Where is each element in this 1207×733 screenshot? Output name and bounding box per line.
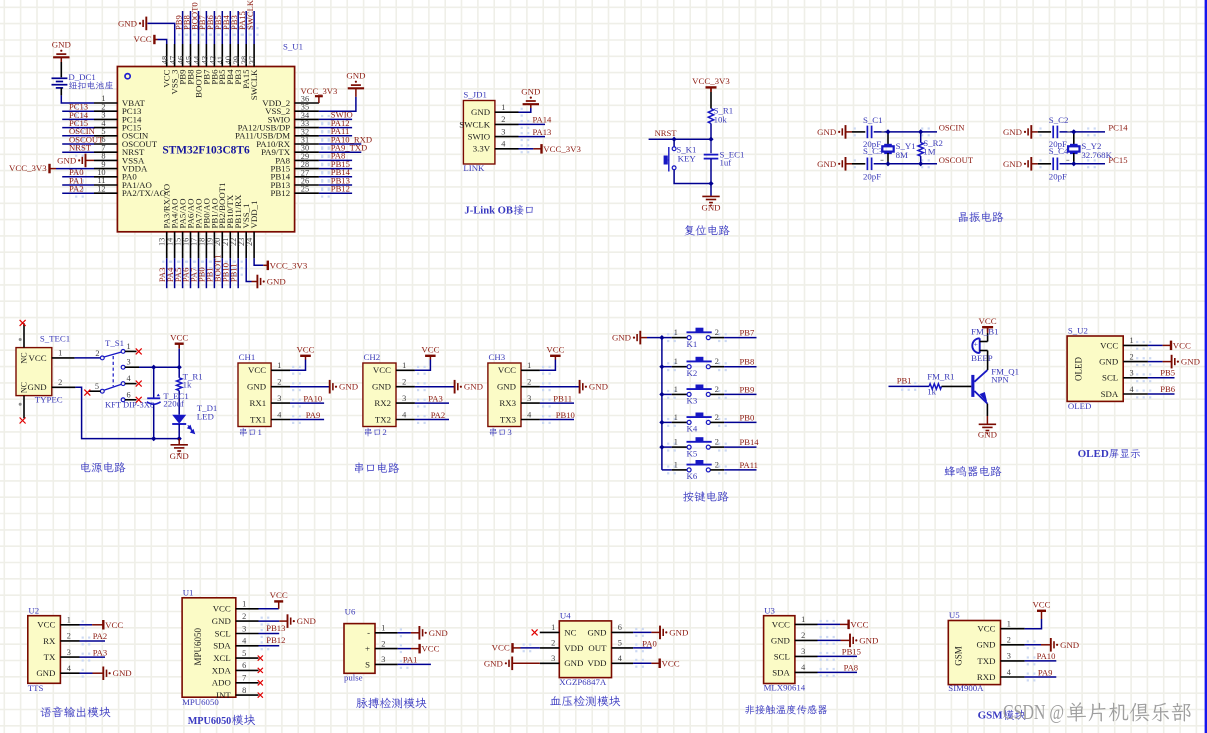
pin 3 (S) of U6 xyxy=(365,655,398,669)
wire xyxy=(1025,644,1041,646)
wire xyxy=(710,87,712,92)
svg-text:2: 2 xyxy=(715,438,719,447)
svg-text:GND: GND xyxy=(701,203,720,213)
wire xyxy=(710,446,724,448)
svg-text:NPN: NPN xyxy=(991,374,1009,384)
pin 6 (OSCOUT) of U1 xyxy=(94,135,158,149)
svg-text:GND: GND xyxy=(1003,127,1022,137)
pushbutton S_K1 (KEY) xyxy=(672,147,676,151)
svg-text:CH3: CH3 xyxy=(489,352,506,362)
wire xyxy=(1038,131,1051,133)
pin 1 (NC) of U4 xyxy=(540,623,577,637)
wire xyxy=(319,192,352,194)
svg-text:GND: GND xyxy=(771,635,790,645)
svg-text:PA9: PA9 xyxy=(1038,667,1053,677)
wire xyxy=(987,333,989,342)
svg-text:1: 1 xyxy=(381,624,385,633)
svg-text:VDD_1: VDD_1 xyxy=(249,201,259,229)
wire xyxy=(62,110,94,112)
svg-text:2: 2 xyxy=(402,378,406,387)
power GND at U1 pin 35 xyxy=(348,87,364,89)
wire xyxy=(221,258,223,288)
svg-text:5: 5 xyxy=(95,382,99,391)
svg-text:4: 4 xyxy=(801,663,806,672)
wire xyxy=(852,163,865,165)
svg-text:PB8: PB8 xyxy=(740,357,755,367)
junction xyxy=(708,181,713,186)
svg-text:FM_R1: FM_R1 xyxy=(927,371,954,381)
pin 3 (PC14) of U1 xyxy=(94,111,142,125)
wire xyxy=(1060,131,1106,133)
pin 45 (PB8) of U1 xyxy=(184,44,195,85)
buzzer FM_B1 (BEEP) xyxy=(972,338,979,353)
wire xyxy=(290,360,306,371)
svg-text:-: - xyxy=(367,628,370,638)
pin 6 (XDA) of U1 MPU6050 xyxy=(212,661,259,675)
svg-text:RX2: RX2 xyxy=(374,398,391,408)
svg-text:GND: GND xyxy=(612,333,631,343)
pin 20 (PB2/BOOT1) of U1 xyxy=(213,183,227,259)
switch T_S1 contact 3 xyxy=(121,365,125,369)
svg-text:GND: GND xyxy=(52,40,71,50)
power GND at S_C1 xyxy=(845,125,847,139)
capacitor S_C2 (20pF) xyxy=(1052,126,1054,139)
svg-text:+: + xyxy=(365,644,370,654)
wire xyxy=(398,648,411,650)
pin 2 (+) of U6 xyxy=(365,639,398,653)
pushbutton K1 xyxy=(687,336,691,340)
svg-text:XCL: XCL xyxy=(213,653,231,663)
svg-text:GND: GND xyxy=(212,616,231,626)
svg-text:VCC: VCC xyxy=(421,345,439,355)
wire xyxy=(818,639,841,641)
pin 4 (SDA) of U1 MPU6050 xyxy=(213,637,258,651)
svg-text:2: 2 xyxy=(382,427,386,437)
connector CH2 body xyxy=(363,363,396,427)
module S_U2 (OLED) body xyxy=(1067,336,1123,401)
svg-text:K2: K2 xyxy=(687,368,698,378)
wire xyxy=(1148,361,1163,363)
wire xyxy=(647,337,662,339)
wire xyxy=(662,393,672,395)
pin 2 (GND) of U3 xyxy=(771,631,818,645)
pin 37 (SWCLK) of U1 xyxy=(248,44,259,100)
svg-text:2: 2 xyxy=(381,639,385,648)
power VCC of buzzer circuit xyxy=(982,326,993,328)
caption 串口电路 xyxy=(355,462,364,473)
pin 8 (VSSA) of U1 xyxy=(94,152,145,166)
svg-text:1: 1 xyxy=(501,103,505,112)
pin 2 (GND) of S_TEC1 xyxy=(52,386,76,388)
svg-text:1: 1 xyxy=(127,342,131,351)
switch T_S1 contact 1 xyxy=(121,350,125,354)
svg-text:PA2: PA2 xyxy=(69,184,84,194)
svg-text:PA8: PA8 xyxy=(844,663,859,673)
wire xyxy=(818,671,858,673)
svg-text:3: 3 xyxy=(381,655,385,664)
connector CH1 body xyxy=(238,363,271,427)
svg-text:VCC: VCC xyxy=(498,365,516,375)
svg-text:S_U2: S_U2 xyxy=(1068,326,1088,336)
wire xyxy=(237,258,239,288)
wire xyxy=(649,138,711,140)
svg-text:PA2: PA2 xyxy=(431,410,446,420)
wire xyxy=(1025,619,1042,629)
svg-text:PB10: PB10 xyxy=(556,410,575,420)
svg-text:RX: RX xyxy=(43,636,56,646)
svg-text:2: 2 xyxy=(1130,352,1134,361)
svg-text:220uf: 220uf xyxy=(163,399,184,409)
svg-text:PA0: PA0 xyxy=(642,638,657,648)
power GND at S_U2 pin 2 xyxy=(1171,355,1173,369)
svg-text:4: 4 xyxy=(501,140,506,149)
switch T_S1 contact 4 xyxy=(121,382,125,386)
svg-text:GND: GND xyxy=(564,658,583,668)
svg-text:1: 1 xyxy=(674,460,678,469)
wire xyxy=(290,419,324,421)
wire xyxy=(190,258,192,288)
no-ERC marker xyxy=(136,381,142,387)
pushbutton K5 xyxy=(687,445,691,449)
svg-text:PA14: PA14 xyxy=(533,115,552,125)
pin 7 (NRST) of U1 xyxy=(94,143,145,157)
svg-text:2: 2 xyxy=(715,357,719,366)
wire xyxy=(710,337,724,339)
svg-text:2: 2 xyxy=(1007,636,1011,645)
wire xyxy=(640,337,647,339)
pin 29 (PA8) of U1 xyxy=(275,152,319,165)
wire xyxy=(889,385,930,387)
svg-text:2: 2 xyxy=(715,328,719,337)
wire xyxy=(1025,676,1057,678)
svg-text:TTS: TTS xyxy=(28,683,44,693)
wire xyxy=(125,366,139,368)
pin stub xyxy=(125,399,137,401)
wire xyxy=(60,62,62,77)
svg-text:TX3: TX3 xyxy=(500,414,517,424)
wire xyxy=(245,11,247,44)
svg-text:VCC: VCC xyxy=(492,643,510,653)
svg-text:1M: 1M xyxy=(923,147,935,157)
svg-text:GND: GND xyxy=(297,616,316,626)
power GND at U1 pin 47 xyxy=(145,17,147,31)
svg-text:LINK: LINK xyxy=(463,163,485,173)
pin 2 (GND) of S_U2 xyxy=(1099,352,1148,366)
svg-text:MPU6050: MPU6050 xyxy=(182,697,219,707)
power VCC at U5 pin 1 xyxy=(1037,610,1046,612)
LED T_D1 xyxy=(172,415,186,424)
wire xyxy=(986,416,988,424)
wire xyxy=(62,192,94,194)
svg-text:SCL: SCL xyxy=(1102,373,1118,383)
wire xyxy=(724,393,756,395)
svg-text:SDA: SDA xyxy=(213,641,231,651)
wire xyxy=(1148,344,1163,346)
svg-text:1: 1 xyxy=(1130,336,1134,345)
svg-text:1: 1 xyxy=(67,616,71,625)
wire xyxy=(80,624,93,626)
svg-text:2: 2 xyxy=(67,632,71,641)
svg-text:OLED: OLED xyxy=(1068,401,1091,411)
svg-text:PB13: PB13 xyxy=(266,623,285,633)
pin 4 (TX2) of CH2 xyxy=(375,410,415,424)
power VCC_3V3 of reset circuit xyxy=(706,86,717,88)
wire xyxy=(1031,163,1038,165)
module U4 (XGZP6847A) body xyxy=(559,621,611,678)
svg-text:SWCLK: SWCLK xyxy=(459,119,490,129)
wire xyxy=(724,337,756,339)
pin 28 (PB15) of U1 xyxy=(271,160,319,173)
pin 48 (VCC) of U1 xyxy=(161,44,172,88)
pin 7 (ADO) of U1 MPU6050 xyxy=(212,674,259,688)
wire xyxy=(319,168,352,170)
svg-text:6: 6 xyxy=(618,623,622,632)
pin 4 (GND) of U2 xyxy=(36,664,79,678)
wire xyxy=(887,153,889,164)
power VCC_3V3 at U1 pin 24 xyxy=(267,261,269,271)
svg-text:24: 24 xyxy=(245,237,254,246)
svg-text:20pF: 20pF xyxy=(1049,172,1067,182)
pin 1 (GND) of S_JD1 xyxy=(471,103,518,117)
wire xyxy=(398,663,431,665)
svg-text:KFT DIP-3X8: KFT DIP-3X8 xyxy=(105,399,154,409)
resistor S_R2 (1M) xyxy=(918,143,923,157)
svg-text:1: 1 xyxy=(674,357,678,366)
svg-text:VCC: VCC xyxy=(850,619,868,629)
svg-text:5: 5 xyxy=(618,639,622,648)
crystal S_Y2 (32.768K) xyxy=(1070,144,1078,146)
pin 1 (VCC) of U3 xyxy=(772,615,818,629)
svg-text:NRST: NRST xyxy=(69,143,92,153)
svg-text:1k: 1k xyxy=(183,380,192,390)
wire xyxy=(221,11,223,44)
svg-text:pulse: pulse xyxy=(344,673,363,683)
svg-text:VCC: VCC xyxy=(772,619,790,629)
power GND of power circuit xyxy=(171,444,188,446)
caption 按键电路 xyxy=(683,491,694,501)
pin 2 (VDD) of U4 xyxy=(540,639,584,653)
svg-text:GND: GND xyxy=(36,668,55,678)
wire xyxy=(942,385,972,387)
wire xyxy=(846,163,853,165)
svg-text:GND: GND xyxy=(247,382,266,392)
pin 3 (SCL) of U1 MPU6050 xyxy=(215,624,259,638)
power VCC at CH2 pin 1 xyxy=(425,355,436,357)
svg-text:OSCIN: OSCIN xyxy=(939,123,966,133)
svg-text:5: 5 xyxy=(242,649,246,658)
svg-text:VCC: VCC xyxy=(979,316,997,326)
svg-text:2: 2 xyxy=(715,385,719,394)
pin 32 (PA11/USB/DM) of U1 xyxy=(235,127,319,140)
svg-text:PA11: PA11 xyxy=(740,460,758,470)
junction xyxy=(151,365,156,370)
svg-text:SWCLK: SWCLK xyxy=(245,0,255,30)
pin 8 (INT) of U1 MPU6050 xyxy=(216,686,258,700)
svg-text:PA13: PA13 xyxy=(533,127,552,137)
pin 15 (PA5/AO) of U1 xyxy=(174,199,188,259)
power VCC_3V3 at U1 pin 9 xyxy=(48,164,50,174)
svg-text:S_TEC1: S_TEC1 xyxy=(40,333,70,343)
svg-text:NC: NC xyxy=(19,352,28,363)
capacitor S_EC1 xyxy=(704,154,719,156)
svg-text:K6: K6 xyxy=(687,471,698,481)
switch T_S1 blade 2 xyxy=(104,384,122,390)
svg-text:CH2: CH2 xyxy=(364,352,381,362)
svg-text:VCC: VCC xyxy=(170,333,188,343)
junction xyxy=(885,129,890,134)
wire xyxy=(540,402,574,404)
svg-text:SIM900A: SIM900A xyxy=(948,683,984,693)
power GND at U6 pin 1 xyxy=(418,626,420,640)
svg-text:PB14: PB14 xyxy=(740,437,760,447)
svg-text:2: 2 xyxy=(242,612,246,621)
svg-text:GND: GND xyxy=(497,382,516,392)
pin 21 (PB10/TX) of U1 xyxy=(221,194,235,258)
power GND of reset circuit xyxy=(702,195,719,197)
svg-text:U2: U2 xyxy=(28,606,39,616)
wire xyxy=(662,337,672,339)
svg-text:TX1: TX1 xyxy=(250,414,266,424)
svg-text:GND: GND xyxy=(484,658,503,668)
svg-text:PA3: PA3 xyxy=(93,647,108,657)
pin 30 (PA9/TX) of U1 xyxy=(261,144,319,157)
pin 12 (PA2/TX/AO) of U1 xyxy=(94,184,166,198)
wire xyxy=(710,469,724,471)
svg-text:GND: GND xyxy=(471,107,490,117)
pin 3 (GND) of U4 xyxy=(540,654,584,668)
svg-text:XDA: XDA xyxy=(212,665,232,675)
svg-text:CSDN @: CSDN @ xyxy=(1003,700,1064,724)
connector S_TEC1 body xyxy=(16,348,52,396)
svg-text:7: 7 xyxy=(242,674,246,683)
no-ERC marker xyxy=(258,680,263,685)
svg-text:2: 2 xyxy=(58,378,62,387)
capacitor S_C3 (20pF) xyxy=(866,158,868,171)
power GND at U4 pin 6 xyxy=(659,626,661,640)
pin 19 (PB1/AO) of U1 xyxy=(205,198,219,258)
pin 39 (PB3) of U1 xyxy=(232,44,243,85)
svg-text:GSM: GSM xyxy=(978,710,1004,722)
svg-text:VCC: VCC xyxy=(29,353,47,363)
pin 3 (RX1) of CH1 xyxy=(249,394,290,408)
wire xyxy=(178,344,180,349)
wire xyxy=(319,159,352,161)
svg-text:CH1: CH1 xyxy=(239,352,256,362)
wire xyxy=(710,139,712,153)
svg-text:3: 3 xyxy=(402,394,406,403)
wire xyxy=(920,156,922,164)
svg-text:GND: GND xyxy=(1099,357,1118,367)
svg-text:1: 1 xyxy=(1007,620,1011,629)
power GND at CH1 pin 2 xyxy=(329,380,331,394)
wire xyxy=(874,131,937,133)
svg-text:PA9: PA9 xyxy=(306,410,321,420)
pin 1 (VCC) of U5 xyxy=(977,620,1024,634)
pin 4 (TX1) of CH1 xyxy=(250,410,290,424)
pin 9 (VDDA) of U1 xyxy=(94,160,148,174)
svg-text:TX2: TX2 xyxy=(375,414,391,424)
pushbutton K6 xyxy=(687,468,691,472)
junction xyxy=(1071,129,1076,134)
svg-text:GND: GND xyxy=(57,155,76,165)
svg-text:2: 2 xyxy=(501,115,505,124)
resistor T_R1 (1k) xyxy=(177,378,182,391)
wire xyxy=(62,118,94,120)
pin 3 (RX3) of CH3 xyxy=(499,394,540,408)
pin stub xyxy=(125,350,137,352)
svg-text:PA2: PA2 xyxy=(93,631,108,641)
svg-text:4: 4 xyxy=(127,374,132,383)
junction xyxy=(1071,161,1076,166)
wire xyxy=(398,632,411,634)
pin 2 (PC13) of U1 xyxy=(94,102,142,116)
no-ERC marker xyxy=(20,320,26,326)
svg-text:SCL: SCL xyxy=(215,628,231,638)
svg-text:SWIO: SWIO xyxy=(468,132,490,142)
pin 40 (PB4) of U1 xyxy=(224,44,235,85)
svg-text:GND: GND xyxy=(521,87,540,97)
svg-text:8M: 8M xyxy=(896,150,908,160)
wire xyxy=(62,151,94,153)
svg-text:1k: 1k xyxy=(927,387,936,397)
wire xyxy=(986,404,988,416)
wire xyxy=(56,168,94,170)
wire xyxy=(153,405,155,439)
switch T_S1 contact 6 xyxy=(121,398,125,402)
pin NC (top shell) of S_TEC1 xyxy=(23,323,25,347)
svg-text:1: 1 xyxy=(242,600,246,609)
pin 31 (PA10/RX) of U1 xyxy=(256,136,319,149)
svg-text:1: 1 xyxy=(527,361,531,370)
svg-text:PB15: PB15 xyxy=(842,647,861,657)
pin 33 (PA12/USB/DP) of U1 xyxy=(238,119,319,132)
svg-text:1: 1 xyxy=(551,623,555,632)
wire xyxy=(661,338,663,470)
wire xyxy=(724,446,756,448)
svg-text:GND: GND xyxy=(1003,159,1022,169)
power VCC at U4 pin 2 xyxy=(511,643,513,653)
svg-text:GND: GND xyxy=(817,127,836,137)
svg-text:1: 1 xyxy=(258,427,262,437)
pin 5 (XCL) of U1 MPU6050 xyxy=(213,649,258,663)
svg-text:SCL: SCL xyxy=(774,651,790,661)
MCU U1 (S_U1 STM32F103C8T6) body xyxy=(117,67,294,232)
wire xyxy=(213,11,215,44)
wire xyxy=(253,11,255,44)
svg-text:RX3: RX3 xyxy=(499,398,516,408)
caption 蜂鸣器电路 xyxy=(944,466,955,476)
svg-text:VCC: VCC xyxy=(977,624,995,634)
svg-text:PB11: PB11 xyxy=(228,263,238,282)
wire xyxy=(710,124,712,140)
wire xyxy=(178,439,180,445)
svg-text:PC14: PC14 xyxy=(1108,123,1128,133)
pin 26 (PB13) of U1 xyxy=(271,177,319,190)
svg-text:PA10: PA10 xyxy=(1037,651,1056,661)
pin 2 (GND) of CH1 xyxy=(247,378,290,392)
module U6 (pulse) body xyxy=(344,624,375,674)
power GND at CH3 pin 2 xyxy=(579,380,581,394)
power VCC_3V3 at S_JD1 pin 4 xyxy=(540,144,542,154)
pin 2 (GND) of U5 xyxy=(976,636,1024,650)
svg-text:4: 4 xyxy=(618,654,623,663)
pin 11 (PA1/AO) of U1 xyxy=(94,176,152,190)
pin 4 (TX3) of CH3 xyxy=(500,410,540,424)
wire xyxy=(139,366,179,368)
svg-text:TYPEC: TYPEC xyxy=(35,395,63,405)
pin 43 (PB7) of U1 xyxy=(200,44,211,85)
svg-text:GND: GND xyxy=(339,382,358,392)
